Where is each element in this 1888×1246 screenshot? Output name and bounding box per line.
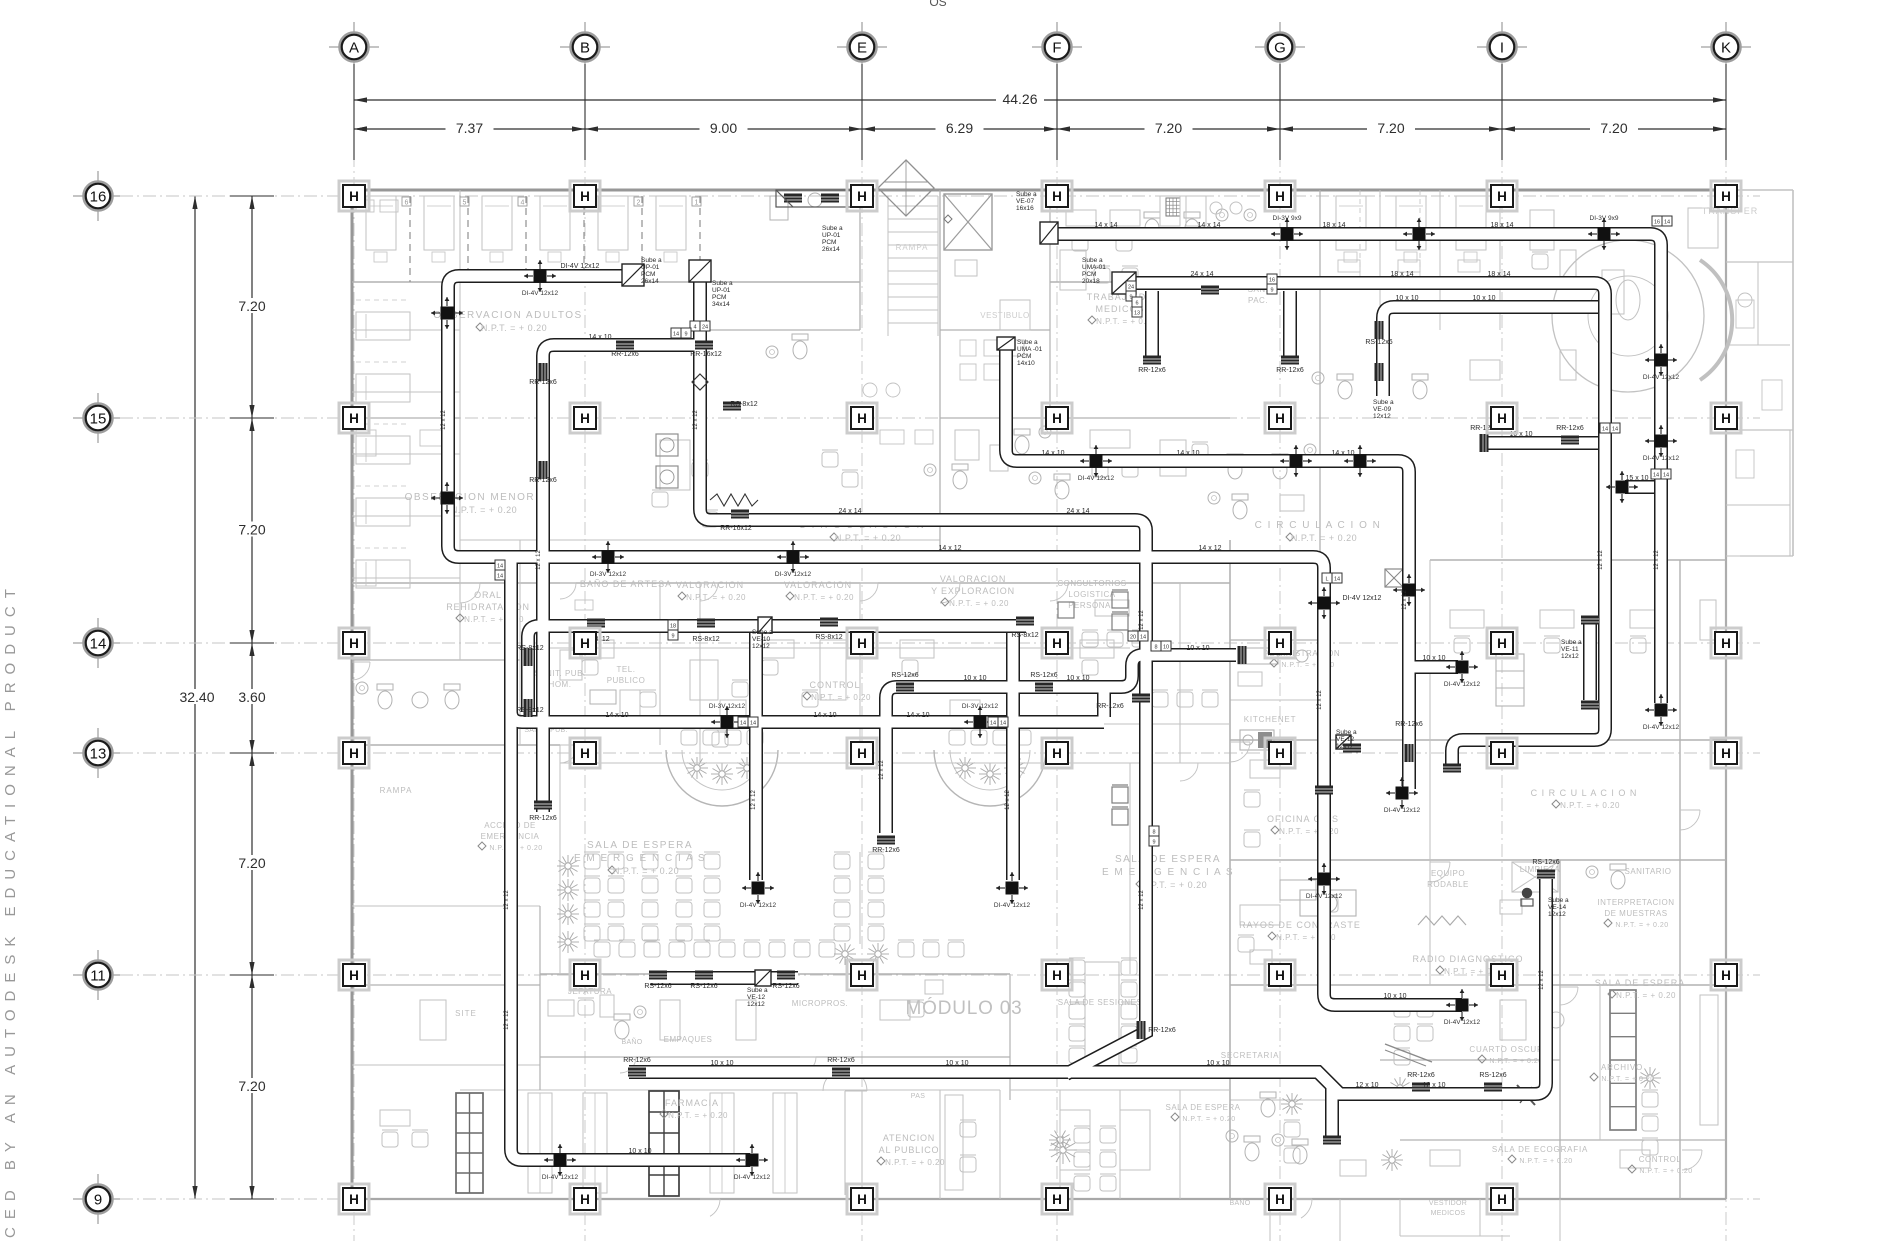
svg-text:2: 2 (637, 200, 641, 207)
svg-text:H: H (580, 189, 590, 204)
svg-text:10 x 10: 10 x 10 (1473, 295, 1496, 302)
svg-text:16: 16 (1269, 278, 1275, 284)
svg-text:RS-8x12: RS-8x12 (730, 401, 757, 408)
svg-text:14x10: 14x10 (1017, 360, 1035, 367)
svg-text:9: 9 (94, 1192, 102, 1209)
svg-text:PCM: PCM (822, 239, 836, 246)
svg-text:20x18: 20x18 (1082, 278, 1100, 285)
svg-text:3.60: 3.60 (238, 689, 265, 705)
svg-text:RS-12x6: RS-12x6 (1479, 1072, 1506, 1079)
svg-text:C I R C U L A C I O N: C I R C U L A C I O N (1255, 520, 1382, 531)
svg-text:12 x 12: 12 x 12 (1139, 889, 1145, 909)
svg-text:SALA DE ECOGRAFIA: SALA DE ECOGRAFIA (1492, 1145, 1588, 1154)
svg-text:H: H (349, 411, 359, 426)
svg-text:RS-12x6: RS-12x6 (1365, 339, 1392, 346)
svg-text:13: 13 (90, 746, 107, 763)
svg-text:Sube a: Sube a (752, 629, 773, 636)
svg-text:Sube a: Sube a (1373, 399, 1394, 406)
svg-text:12x12: 12x12 (752, 643, 770, 650)
svg-text:H: H (1721, 746, 1731, 761)
svg-text:VE-09: VE-09 (1373, 406, 1391, 413)
svg-text:Y EXPLORACION: Y EXPLORACION (931, 586, 1015, 596)
svg-text:6.29: 6.29 (946, 120, 973, 136)
svg-text:12 x 12: 12 x 12 (1598, 549, 1604, 569)
svg-text:VE-11: VE-11 (1561, 646, 1579, 653)
svg-text:A: A (349, 40, 359, 57)
svg-text:10 x 10: 10 x 10 (964, 675, 987, 682)
svg-text:G: G (1274, 40, 1286, 57)
svg-text:RS-8x12: RS-8x12 (815, 634, 842, 641)
svg-text:N.P.T. = + 0.20: N.P.T. = + 0.20 (1489, 1058, 1542, 1065)
svg-text:26x14: 26x14 (641, 278, 659, 285)
svg-text:9: 9 (1152, 840, 1155, 846)
svg-text:RS-12x6: RS-12x6 (1532, 859, 1559, 866)
svg-text:RS-8x12: RS-8x12 (516, 645, 543, 652)
svg-text:N.P.T. = + 0.20: N.P.T. = + 0.20 (1639, 1168, 1692, 1175)
svg-text:Sube a: Sube a (822, 225, 843, 232)
svg-text:VE-12: VE-12 (1336, 736, 1354, 743)
svg-text:32.40: 32.40 (179, 689, 214, 705)
svg-text:14 x 10: 14 x 10 (907, 712, 930, 719)
svg-text:H: H (1275, 1192, 1285, 1207)
svg-text:H: H (857, 1192, 867, 1207)
svg-text:14 x 14: 14 x 14 (1095, 222, 1118, 229)
svg-text:RR-12x6: RR-12x6 (623, 1057, 651, 1064)
svg-text:RR-12x6: RR-12x6 (1407, 1072, 1435, 1079)
svg-text:7.20: 7.20 (238, 1078, 265, 1094)
svg-text:H: H (1052, 189, 1062, 204)
svg-text:H: H (349, 636, 359, 651)
svg-text:H: H (857, 636, 867, 651)
svg-text:12 x 12: 12 x 12 (1402, 589, 1408, 609)
svg-text:CUARTO OSCURO: CUARTO OSCURO (1469, 1045, 1550, 1054)
svg-text:SALA DE SESIONES: SALA DE SESIONES (1058, 998, 1142, 1007)
svg-text:DI-4V 12x12: DI-4V 12x12 (1444, 681, 1481, 688)
svg-text:N.P.T. = + 0.20: N.P.T. = + 0.20 (481, 323, 547, 333)
svg-text:7.20: 7.20 (1600, 120, 1627, 136)
svg-text:10 x 10: 10 x 10 (1187, 645, 1210, 652)
svg-text:RR-16x12: RR-16x12 (720, 525, 752, 532)
svg-text:VE-14: VE-14 (1548, 904, 1566, 911)
svg-text:DI-4V 12x12: DI-4V 12x12 (1643, 374, 1680, 381)
svg-text:4: 4 (693, 325, 696, 331)
svg-text:OBSERVACION ADULTOS: OBSERVACION ADULTOS (433, 310, 582, 321)
svg-text:I: I (1500, 40, 1504, 57)
svg-text:H: H (1275, 968, 1285, 983)
svg-text:10 x 10: 10 x 10 (711, 1060, 734, 1067)
svg-text:15: 15 (90, 411, 107, 428)
svg-text:7.20: 7.20 (238, 298, 265, 314)
svg-text:PERSONAL: PERSONAL (1068, 601, 1116, 610)
svg-text:H: H (1275, 636, 1285, 651)
svg-text:20: 20 (1130, 635, 1136, 641)
svg-text:12 x 12: 12 x 12 (1139, 609, 1145, 629)
svg-text:DI-4V 12x12: DI-4V 12x12 (1643, 455, 1680, 462)
svg-text:RR-12x6: RR-12x6 (1096, 703, 1124, 710)
svg-text:12 x 12: 12 x 12 (1539, 969, 1545, 989)
svg-text:14: 14 (1653, 473, 1659, 479)
svg-text:6: 6 (405, 200, 409, 207)
svg-text:RAYOS DE CONTRASTE: RAYOS DE CONTRASTE (1239, 920, 1361, 930)
svg-text:H: H (1052, 636, 1062, 651)
svg-text:Sube a: Sube a (1548, 897, 1569, 904)
svg-text:12x12: 12x12 (747, 1001, 765, 1008)
svg-text:N.P.T. = + 0.20: N.P.T. = + 0.20 (1616, 991, 1676, 1000)
svg-text:PCM: PCM (712, 294, 726, 301)
svg-text:Sube a: Sube a (1017, 339, 1038, 346)
svg-text:12 x 12: 12 x 12 (751, 789, 757, 809)
svg-text:DI-4V 12x12: DI-4V 12x12 (1306, 893, 1343, 900)
svg-text:H: H (1275, 411, 1285, 426)
svg-text:EQUIPO: EQUIPO (1431, 869, 1465, 878)
svg-text:H: H (580, 636, 590, 651)
svg-text:RAMPA: RAMPA (896, 243, 929, 252)
svg-text:14: 14 (1602, 427, 1608, 433)
svg-text:9: 9 (671, 634, 674, 640)
svg-text:LOGISTICA: LOGISTICA (1068, 590, 1115, 599)
svg-text:N.P.T. = + 0.20: N.P.T. = + 0.20 (1615, 922, 1668, 929)
svg-text:10 x 10: 10 x 10 (946, 1060, 969, 1067)
svg-text:12x12: 12x12 (1336, 743, 1354, 750)
svg-text:14 x 10: 14 x 10 (1042, 450, 1065, 457)
svg-text:14 x 10: 14 x 10 (814, 712, 837, 719)
svg-text:12 x 12: 12 x 12 (1654, 549, 1660, 569)
svg-text:H: H (349, 1192, 359, 1207)
svg-text:DI-3V 9x9: DI-3V 9x9 (1590, 215, 1619, 222)
svg-text:CONTROL: CONTROL (1639, 1155, 1682, 1164)
svg-text:RS-8x12: RS-8x12 (516, 707, 543, 714)
svg-text:9.00: 9.00 (710, 120, 737, 136)
svg-text:RR-12x6: RR-12x6 (1556, 425, 1584, 432)
svg-text:RR-12x6: RR-12x6 (827, 1057, 855, 1064)
svg-text:C I R C U L A C I O N: C I R C U L A C I O N (1531, 788, 1638, 798)
svg-text:RR-12x6: RR-12x6 (1138, 367, 1166, 374)
svg-text:14: 14 (497, 564, 503, 570)
svg-text:14 x 14: 14 x 14 (1198, 222, 1221, 229)
svg-text:RS-12x6: RS-12x6 (690, 983, 717, 990)
svg-text:SANITARIO: SANITARIO (1624, 867, 1671, 876)
svg-text:DI-4V 12x12: DI-4V 12x12 (1444, 1019, 1481, 1026)
svg-text:N.P.T. = + 0.20: N.P.T. = + 0.20 (794, 593, 854, 602)
svg-text:RR-12x6: RR-12x6 (529, 815, 557, 822)
svg-text:26x14: 26x14 (822, 246, 840, 253)
svg-text:14: 14 (990, 721, 996, 727)
svg-text:14: 14 (1000, 721, 1006, 727)
svg-text:18: 18 (670, 624, 676, 630)
svg-text:H: H (857, 189, 867, 204)
svg-text:Sube a: Sube a (1016, 191, 1037, 198)
svg-text:RR-12x6: RR-12x6 (1148, 1027, 1176, 1034)
svg-text:DE MUESTRAS: DE MUESTRAS (1604, 909, 1667, 918)
svg-text:K: K (1721, 40, 1731, 57)
svg-text:H: H (349, 746, 359, 761)
svg-text:N.P.T. = + 0.20: N.P.T. = + 0.20 (686, 593, 746, 602)
svg-text:24 x 14: 24 x 14 (1191, 271, 1214, 278)
svg-text:E: E (857, 40, 867, 57)
svg-text:MEDICOS: MEDICOS (1431, 1210, 1466, 1217)
svg-text:10 x 10: 10 x 10 (629, 1148, 652, 1155)
svg-text:24 x 14: 24 x 14 (839, 508, 862, 515)
svg-text:N.P.T. = + 0.20: N.P.T. = + 0.20 (811, 693, 871, 702)
svg-text:ORAL: ORAL (474, 590, 502, 600)
svg-text:ATENCION: ATENCION (883, 1133, 935, 1143)
svg-text:RODABLE: RODABLE (1427, 880, 1469, 889)
svg-text:14: 14 (750, 721, 756, 727)
svg-text:N.P.T. = + 0.20: N.P.T. = + 0.20 (613, 866, 679, 876)
svg-text:H: H (1052, 968, 1062, 983)
svg-text:H: H (349, 189, 359, 204)
svg-text:RR-12x6: RR-12x6 (611, 351, 639, 358)
svg-text:INTERPRETACION: INTERPRETACION (1597, 898, 1674, 907)
svg-text:SALA DE ESPERA: SALA DE ESPERA (1115, 854, 1221, 865)
svg-text:DI-4V 12x12: DI-4V 12x12 (542, 1174, 579, 1181)
svg-text:N.P.T. = + 0.20: N.P.T. = + 0.20 (885, 1158, 945, 1167)
svg-text:H: H (1721, 189, 1731, 204)
svg-text:12 x 12: 12 x 12 (1317, 689, 1323, 709)
svg-text:PAS: PAS (911, 1093, 925, 1100)
svg-text:H: H (1497, 411, 1507, 426)
svg-text:10 x 10: 10 x 10 (1423, 655, 1446, 662)
svg-text:SALA DE ESPERA: SALA DE ESPERA (1165, 1103, 1240, 1112)
svg-text:PCM: PCM (1017, 353, 1031, 360)
svg-text:RR-12x6: RR-12x6 (1395, 721, 1423, 728)
svg-text:RS-12x6: RS-12x6 (772, 983, 799, 990)
svg-text:12 x 12: 12 x 12 (879, 759, 885, 779)
svg-text:12x12: 12x12 (1561, 653, 1579, 660)
svg-text:N.P.T. = + 0.20: N.P.T. = + 0.20 (1519, 1158, 1572, 1165)
svg-text:14 x 12: 14 x 12 (1199, 545, 1222, 552)
svg-text:PAC.: PAC. (1248, 296, 1268, 305)
svg-text:UP-01: UP-01 (641, 264, 660, 271)
svg-text:MÓDULO 03: MÓDULO 03 (905, 997, 1022, 1019)
svg-text:Sube a: Sube a (1082, 257, 1103, 264)
svg-text:L: L (1325, 577, 1328, 583)
svg-text:1: 1 (695, 200, 699, 207)
svg-text:DI-4V 12x12: DI-4V 12x12 (1643, 724, 1680, 731)
svg-text:RR-12x6: RR-12x6 (529, 379, 557, 386)
svg-text:ARCHIVO: ARCHIVO (1601, 1063, 1643, 1072)
svg-text:14 x 10: 14 x 10 (606, 712, 629, 719)
svg-text:10 x 10: 10 x 10 (1207, 1060, 1230, 1067)
svg-text:KITCHENET: KITCHENET (1244, 715, 1297, 724)
svg-text:14 x 10: 14 x 10 (1332, 450, 1355, 457)
svg-text:RR-12x6: RR-12x6 (529, 477, 557, 484)
svg-text:12 x 10: 12 x 10 (1356, 1082, 1379, 1089)
svg-text:14: 14 (90, 636, 107, 653)
svg-text:BAÑO DE ARTESA: BAÑO DE ARTESA (580, 579, 672, 589)
svg-text:TEL.: TEL. (617, 665, 636, 674)
svg-text:8: 8 (1152, 830, 1155, 836)
svg-text:BAÑO: BAÑO (1229, 1198, 1250, 1207)
svg-text:14: 14 (497, 574, 503, 580)
svg-text:RAMPA: RAMPA (380, 786, 413, 795)
svg-text:15 x 10: 15 x 10 (1626, 475, 1649, 482)
svg-text:N.P.T. = + 0.20: N.P.T. = + 0.20 (949, 599, 1009, 608)
svg-text:14: 14 (1664, 220, 1670, 226)
svg-text:10 x 10: 10 x 10 (1384, 993, 1407, 1000)
svg-text:E M E R G E N C I A S: E M E R G E N C I A S (574, 853, 706, 864)
svg-text:DI-4V 12x12: DI-4V 12x12 (1384, 807, 1421, 814)
svg-text:H: H (1721, 968, 1731, 983)
svg-text:DI-4V 12x12: DI-4V 12x12 (740, 902, 777, 909)
svg-text:CONTROL: CONTROL (809, 680, 860, 690)
svg-text:18 x 14: 18 x 14 (1391, 271, 1414, 278)
svg-text:OBSERVCION MENORES: OBSERVCION MENORES (405, 492, 552, 503)
svg-text:RS-12x6: RS-12x6 (891, 672, 918, 679)
svg-text:OS: OS (929, 0, 946, 9)
svg-text:H: H (857, 411, 867, 426)
svg-text:N.P.T. = + 0.20: N.P.T. = + 0.20 (1182, 1116, 1235, 1123)
svg-text:DI-4V 12x12: DI-4V 12x12 (994, 902, 1031, 909)
svg-text:24: 24 (702, 325, 708, 331)
svg-text:H: H (1052, 746, 1062, 761)
svg-text:DI-3V 12x12: DI-3V 12x12 (590, 571, 627, 578)
svg-text:H: H (1721, 411, 1731, 426)
svg-text:H: H (1052, 1192, 1062, 1207)
svg-text:H: H (1275, 746, 1285, 761)
svg-text:12 x 12: 12 x 12 (504, 1009, 510, 1029)
svg-text:UP-01: UP-01 (822, 232, 841, 239)
svg-text:7.20: 7.20 (1377, 120, 1404, 136)
svg-text:PUBLICO: PUBLICO (607, 676, 646, 685)
svg-text:34x14: 34x14 (712, 301, 730, 308)
svg-text:14 x 10: 14 x 10 (1177, 450, 1200, 457)
svg-text:H: H (580, 968, 590, 983)
svg-text:H: H (1275, 189, 1285, 204)
svg-text:H: H (1497, 189, 1507, 204)
svg-text:10 x 10: 10 x 10 (1396, 295, 1419, 302)
svg-text:EMPAQUES: EMPAQUES (664, 1035, 713, 1044)
svg-text:VALORACION: VALORACION (940, 574, 1006, 584)
svg-text:16: 16 (90, 189, 107, 206)
svg-text:RS-8x12: RS-8x12 (1011, 632, 1038, 639)
svg-text:VE-07: VE-07 (1016, 198, 1034, 205)
svg-text:4: 4 (521, 200, 525, 207)
svg-text:H: H (1497, 746, 1507, 761)
svg-text:9: 9 (1270, 288, 1273, 294)
svg-text:H: H (1497, 636, 1507, 651)
svg-text:DI-4V 12x12: DI-4V 12x12 (522, 290, 559, 297)
svg-text:VESTIDOR: VESTIDOR (1429, 1200, 1467, 1207)
svg-text:12 x 12: 12 x 12 (536, 549, 542, 569)
svg-text:9: 9 (684, 332, 687, 338)
svg-text:7.20: 7.20 (1155, 120, 1182, 136)
svg-text:MICROPROS.: MICROPROS. (792, 999, 849, 1008)
svg-text:N.P.T. = + 0.20: N.P.T. = + 0.20 (1560, 801, 1620, 810)
svg-text:10 x 10: 10 x 10 (1067, 675, 1090, 682)
svg-text:24 x 14: 24 x 14 (1067, 508, 1090, 515)
svg-text:DI-4V 12x12: DI-4V 12x12 (734, 1174, 771, 1181)
svg-text:Sube a: Sube a (747, 987, 768, 994)
svg-text:24: 24 (1128, 285, 1134, 291)
svg-text:H: H (857, 746, 867, 761)
svg-text:8: 8 (1154, 645, 1157, 651)
svg-text:SALA DE ESPERA: SALA DE ESPERA (1595, 978, 1686, 988)
svg-text:RS-12x6: RS-12x6 (644, 983, 671, 990)
svg-text:DI-4V 12x12: DI-4V 12x12 (561, 263, 600, 270)
svg-text:FARMACIA: FARMACIA (665, 1098, 719, 1108)
svg-text:14: 14 (1663, 473, 1669, 479)
svg-text:DI-4V 12x12: DI-4V 12x12 (1078, 475, 1115, 482)
svg-text:H: H (1497, 968, 1507, 983)
svg-text:12 x 12: 12 x 12 (1005, 789, 1011, 809)
svg-text:N.P.T. = + 0.20: N.P.T. = + 0.20 (1601, 1076, 1654, 1083)
svg-text:16: 16 (1654, 220, 1660, 226)
svg-text:BAÑO: BAÑO (621, 1037, 642, 1046)
svg-text:12 x 10: 12 x 10 (1423, 1082, 1446, 1089)
svg-text:DI-4V 12x12: DI-4V 12x12 (1343, 595, 1382, 602)
svg-text:F: F (1052, 40, 1061, 57)
svg-text:UMA-01: UMA-01 (1082, 264, 1106, 271)
svg-text:VALORACION: VALORACION (784, 580, 852, 590)
svg-text:44.26: 44.26 (1002, 91, 1037, 107)
svg-text:6: 6 (1135, 301, 1138, 307)
svg-text:H: H (1721, 636, 1731, 651)
svg-text:SECRETARIA: SECRETARIA (1221, 1051, 1280, 1060)
svg-text:DI-3V 12x12: DI-3V 12x12 (775, 571, 812, 578)
svg-text:RS-8x12: RS-8x12 (692, 636, 719, 643)
svg-text:UP-01: UP-01 (712, 287, 731, 294)
svg-text:AL PUBLICO: AL PUBLICO (879, 1145, 940, 1155)
svg-text:B: B (580, 40, 590, 57)
svg-text:12 x 12: 12 x 12 (441, 409, 447, 429)
svg-text:VESTIBULO: VESTIBULO (980, 311, 1029, 320)
svg-text:7.20: 7.20 (238, 855, 265, 871)
svg-text:H: H (857, 968, 867, 983)
svg-text:18 x 14: 18 x 14 (1323, 222, 1346, 229)
svg-text:7.20: 7.20 (238, 522, 265, 538)
svg-text:DI-3V 12x12: DI-3V 12x12 (962, 703, 999, 710)
svg-text:VE-12: VE-12 (747, 994, 765, 1001)
svg-text:SITE: SITE (455, 1009, 477, 1018)
svg-text:14: 14 (1612, 427, 1618, 433)
svg-text:VALORACION: VALORACION (676, 580, 744, 590)
svg-text:N.P.T. = + 0.20: N.P.T. = + 0.20 (451, 505, 517, 515)
svg-text:RR-12x6: RR-12x6 (1276, 367, 1304, 374)
svg-text:14: 14 (1334, 577, 1340, 583)
svg-text:N.P.T. = + 0.20: N.P.T. = + 0.20 (668, 1111, 728, 1120)
svg-text:18 x 14: 18 x 14 (1488, 271, 1511, 278)
svg-text:H: H (580, 1192, 590, 1207)
svg-text:E M E R G E N C I A S: E M E R G E N C I A S (1102, 867, 1234, 878)
svg-text:12x12: 12x12 (1373, 413, 1391, 420)
svg-text:14: 14 (1140, 635, 1146, 641)
svg-text:14 x 10: 14 x 10 (589, 334, 612, 341)
svg-text:12 x 12: 12 x 12 (504, 889, 510, 909)
svg-text:12x12: 12x12 (1548, 911, 1566, 918)
svg-text:12 x 12: 12 x 12 (693, 409, 699, 429)
svg-text:Sube a: Sube a (641, 257, 662, 264)
svg-text:14: 14 (673, 332, 679, 338)
svg-text:14 x 12: 14 x 12 (939, 545, 962, 552)
svg-text:Sube a: Sube a (1561, 639, 1582, 646)
svg-text:18 x 14: 18 x 14 (1491, 222, 1514, 229)
svg-text:11: 11 (90, 968, 106, 985)
svg-text:RR-12x6: RR-12x6 (872, 847, 900, 854)
svg-text:N.P.T. = + 0.20: N.P.T. = + 0.20 (1291, 533, 1357, 543)
svg-text:DI-3V 9x9: DI-3V 9x9 (1273, 215, 1302, 222)
svg-text:UMA -01: UMA -01 (1017, 346, 1043, 353)
svg-text:PCM: PCM (1082, 271, 1096, 278)
svg-text:CED BY AN AUTODESK EDUCATIONAL: CED BY AN AUTODESK EDUCATIONAL PRODUCT (2, 581, 19, 1238)
svg-text:5: 5 (463, 200, 467, 207)
svg-text:14: 14 (740, 721, 746, 727)
svg-text:Sube a: Sube a (1336, 729, 1357, 736)
svg-text:DI-3V 12x12: DI-3V 12x12 (709, 703, 746, 710)
svg-text:HOM.: HOM. (549, 680, 572, 689)
svg-text:RR-16x12: RR-16x12 (690, 351, 722, 358)
svg-text:16x16: 16x16 (1016, 205, 1034, 212)
